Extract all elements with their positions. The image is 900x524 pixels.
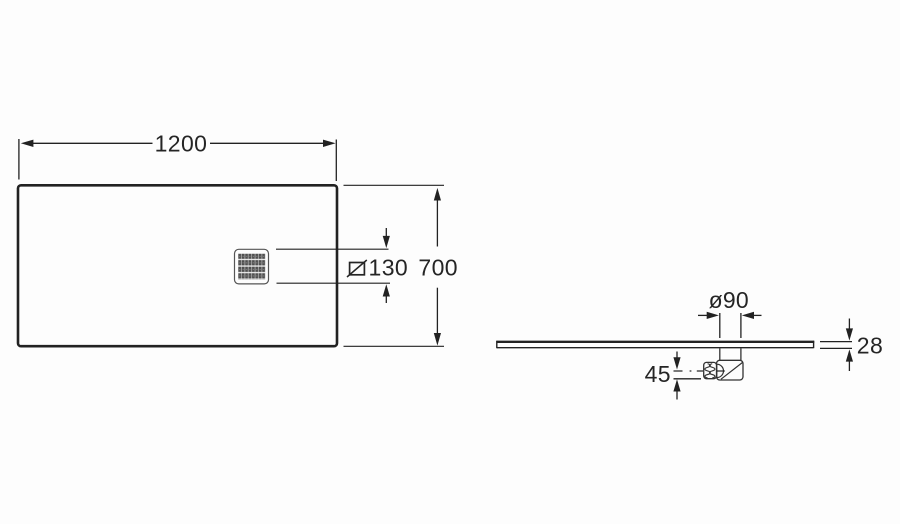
drain dimension 130 lower arrow bbox=[383, 284, 390, 303]
dimension 45 upper arrow bbox=[673, 352, 680, 370]
dimension 700 line with arrowheads bbox=[434, 188, 441, 346]
130 label bbox=[369, 255, 409, 281]
dimension 1200 line with arrowheads bbox=[21, 140, 336, 147]
dimension 45 bottom reference line bbox=[674, 378, 702, 380]
drain dimension 130 upper arrow bbox=[383, 228, 390, 248]
dimension 1200 label bbox=[155, 130, 208, 156]
drain dimension 130 top line bbox=[276, 248, 389, 250]
svg-text:700: 700 bbox=[418, 255, 458, 281]
tray plan-view outline bbox=[18, 185, 337, 346]
dimension 700 extension line bottom bbox=[344, 345, 445, 347]
dimension 700 label bbox=[418, 255, 458, 281]
dimension o90 label bbox=[709, 287, 749, 313]
dimension 28 label bbox=[857, 332, 883, 358]
dimension 28 extension lines bbox=[820, 342, 852, 349]
dimension 1200 extension line left bbox=[18, 139, 20, 180]
svg-text:28: 28 bbox=[857, 332, 883, 358]
dimension 1200 extension line right bbox=[335, 140, 337, 182]
drain dimension 130 bottom line bbox=[277, 282, 391, 284]
dimension 700 extension line top bbox=[344, 184, 445, 186]
dimension 28 upper arrow bbox=[846, 319, 853, 341]
svg-text:45: 45 bbox=[645, 361, 671, 387]
trap outlet nut bbox=[704, 362, 717, 378]
drain pipe below slab bbox=[720, 348, 741, 360]
drain grate bbox=[235, 249, 269, 284]
square symbol of 130 label bbox=[347, 260, 367, 277]
svg-text:ø90: ø90 bbox=[709, 287, 749, 313]
trap centerline dash-dot bbox=[674, 370, 725, 372]
dimension o90 arrows bbox=[698, 312, 762, 319]
dimension 28 lower arrow bbox=[846, 349, 853, 371]
trap body bbox=[717, 360, 744, 380]
svg-text:1200: 1200 bbox=[155, 130, 208, 156]
dimension 45 lower arrow bbox=[673, 379, 680, 399]
svg-text:130: 130 bbox=[369, 255, 409, 281]
dimension 45 label bbox=[645, 361, 671, 387]
side view tray slab bbox=[496, 341, 814, 348]
trap dome joint bbox=[717, 364, 724, 377]
drain hole edge lines above slab bbox=[720, 313, 741, 338]
